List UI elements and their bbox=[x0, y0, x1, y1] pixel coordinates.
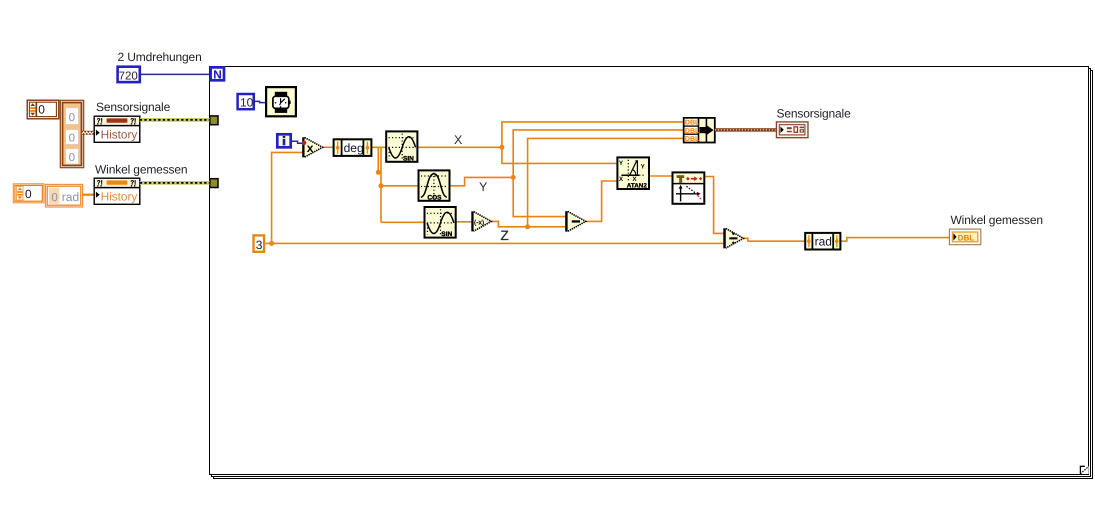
atan2 block bbox=[617, 157, 649, 189]
for-loop frame shadow 1 bbox=[212, 69, 1091, 477]
svg-text:3: 3 bbox=[256, 238, 263, 252]
for-loop frame shadow 2 bbox=[214, 71, 1093, 479]
junction dot X branch bbox=[499, 145, 504, 150]
sine block SIN2 bbox=[425, 207, 456, 238]
blue wire i to multiply bbox=[292, 141, 302, 143]
divide function bbox=[723, 228, 743, 248]
tunnel for Winkel history wire bbox=[210, 179, 218, 188]
numeric index control (brown spinner 0) bbox=[27, 100, 59, 119]
thick brown dashed wire build array to indicator bbox=[715, 128, 777, 131]
multiply function bbox=[302, 137, 322, 157]
wire deg to SIN1 bbox=[371, 146, 386, 148]
svg-text:Y: Y bbox=[479, 180, 488, 194]
svg-text:DBL: DBL bbox=[685, 128, 700, 135]
blue wire 720 to N bbox=[141, 73, 210, 75]
svg-text:X: X bbox=[454, 133, 463, 147]
dashed history wire 2 bbox=[140, 181, 210, 185]
svg-text:2 Umdrehungen: 2 Umdrehungen bbox=[118, 50, 202, 64]
svg-text:Sensorsignale: Sensorsignale bbox=[777, 107, 852, 121]
svg-text:10: 10 bbox=[240, 96, 254, 110]
wire ATAN2 to scaling block bbox=[649, 175, 673, 177]
wire to SIN2 input bbox=[381, 221, 425, 223]
History1 property node (Sensorsignale) bbox=[94, 116, 140, 142]
svg-text:x: x bbox=[307, 141, 314, 155]
svg-text:Z: Z bbox=[501, 228, 509, 243]
for-loop resize corner fold bbox=[1080, 466, 1089, 474]
svg-text:Sensorsignale: Sensorsignale bbox=[96, 100, 171, 114]
svg-text:SIN: SIN bbox=[441, 231, 452, 238]
wire X from SIN1 bbox=[418, 146, 502, 148]
svg-text:(-x): (-x) bbox=[474, 219, 484, 226]
junction dot vertical B at COS branch bbox=[379, 183, 384, 188]
wire scaling block to divide bbox=[704, 177, 723, 234]
constant 720 bbox=[118, 67, 140, 83]
negate function bbox=[471, 211, 491, 231]
cosine block COS bbox=[419, 170, 450, 201]
blue wire 10 to wait bbox=[255, 101, 265, 102]
wire multiply to deg bbox=[323, 146, 334, 148]
tunnel for Sensorsignale history wire bbox=[210, 116, 218, 125]
wire to COS input bbox=[381, 185, 419, 187]
array control of three zeros bbox=[60, 100, 83, 167]
wire X down branch to ATAN2 y bbox=[502, 147, 618, 163]
wire 3 up branch to multiply bbox=[272, 152, 303, 243]
svg-text:rad: rad bbox=[62, 190, 79, 204]
wire X up branch to DBL1 bbox=[502, 122, 684, 147]
wire deg branch vertical A bbox=[377, 147, 379, 172]
svg-text:History: History bbox=[101, 128, 138, 142]
sine block SIN1 bbox=[386, 131, 417, 162]
junction dot Z branch bbox=[525, 224, 530, 229]
numeric winkel control (orange spinner 0) bbox=[13, 184, 44, 203]
DBL conversion stack with build array bbox=[684, 118, 715, 143]
svg-text:Winkel gemessen: Winkel gemessen bbox=[95, 163, 187, 177]
numeric display 0 rad bbox=[45, 184, 82, 207]
svg-text:0: 0 bbox=[25, 187, 32, 201]
orange wire rad control to History2 bbox=[83, 194, 95, 196]
DBL indicator Winkel gemessen bbox=[949, 229, 980, 245]
svg-text:0: 0 bbox=[69, 152, 75, 164]
svg-text:SIN: SIN bbox=[403, 155, 414, 162]
wire rad to DBL indicator bbox=[840, 238, 949, 242]
junction dot at 3 constant bbox=[269, 241, 274, 246]
wire 3 long bottom run to divide bbox=[272, 242, 724, 244]
svg-text:DBL: DBL bbox=[685, 120, 700, 127]
wait ms timer block bbox=[266, 87, 296, 116]
svg-text:0: 0 bbox=[69, 133, 75, 145]
svg-text:Winkel gemessen: Winkel gemessen bbox=[951, 213, 1043, 227]
deg unit conversion bbox=[334, 139, 372, 156]
wire subtract to ATAN2 x bbox=[586, 181, 617, 221]
svg-text:rad: rad bbox=[815, 235, 832, 249]
svg-text:DBL: DBL bbox=[958, 233, 975, 242]
wire divide to rad bbox=[744, 238, 805, 241]
junction dot vertical A bbox=[376, 170, 381, 175]
wire SIN2 to negate bbox=[456, 221, 472, 223]
for-loop frame bbox=[210, 67, 1089, 475]
wire Y from COS bbox=[450, 177, 514, 185]
wire Y down branch to subtract bbox=[513, 177, 565, 216]
constant 3 bbox=[254, 235, 265, 252]
svg-text:720: 720 bbox=[119, 71, 138, 83]
rad unit conversion bbox=[805, 233, 840, 250]
iteration terminal i bbox=[277, 134, 290, 147]
svg-text:0: 0 bbox=[38, 103, 45, 117]
loop count terminal N bbox=[211, 67, 224, 81]
svg-text:ATAN2: ATAN2 bbox=[627, 182, 648, 189]
svg-text:0: 0 bbox=[51, 192, 57, 204]
svg-text:N: N bbox=[213, 68, 222, 82]
thick brown zigzag wire array to History1 bbox=[82, 131, 95, 135]
junction dot Y branch bbox=[511, 175, 516, 180]
coercion dot on multiply bbox=[302, 141, 306, 145]
wire Y up branch to DBL2 bbox=[513, 130, 684, 178]
svg-text:History: History bbox=[101, 190, 138, 204]
array indicator Sensorsignale bbox=[776, 122, 808, 138]
svg-text:deg: deg bbox=[344, 141, 364, 155]
wire Z up branch to DBL3 bbox=[528, 138, 684, 226]
History2 property node (Winkel) bbox=[94, 178, 140, 204]
svg-text:0: 0 bbox=[69, 112, 75, 124]
svg-text:DBL: DBL bbox=[685, 136, 700, 143]
constant 10 bbox=[238, 94, 254, 110]
subtract function bbox=[565, 211, 586, 231]
svg-text:COS: COS bbox=[427, 194, 442, 201]
wire constant 3 stub bbox=[265, 242, 271, 244]
wire Z from negate bbox=[492, 221, 566, 226]
scale and map block bbox=[673, 172, 705, 203]
dashed history wire 1 bbox=[140, 118, 210, 122]
wire deg branch vertical B bbox=[380, 147, 382, 222]
